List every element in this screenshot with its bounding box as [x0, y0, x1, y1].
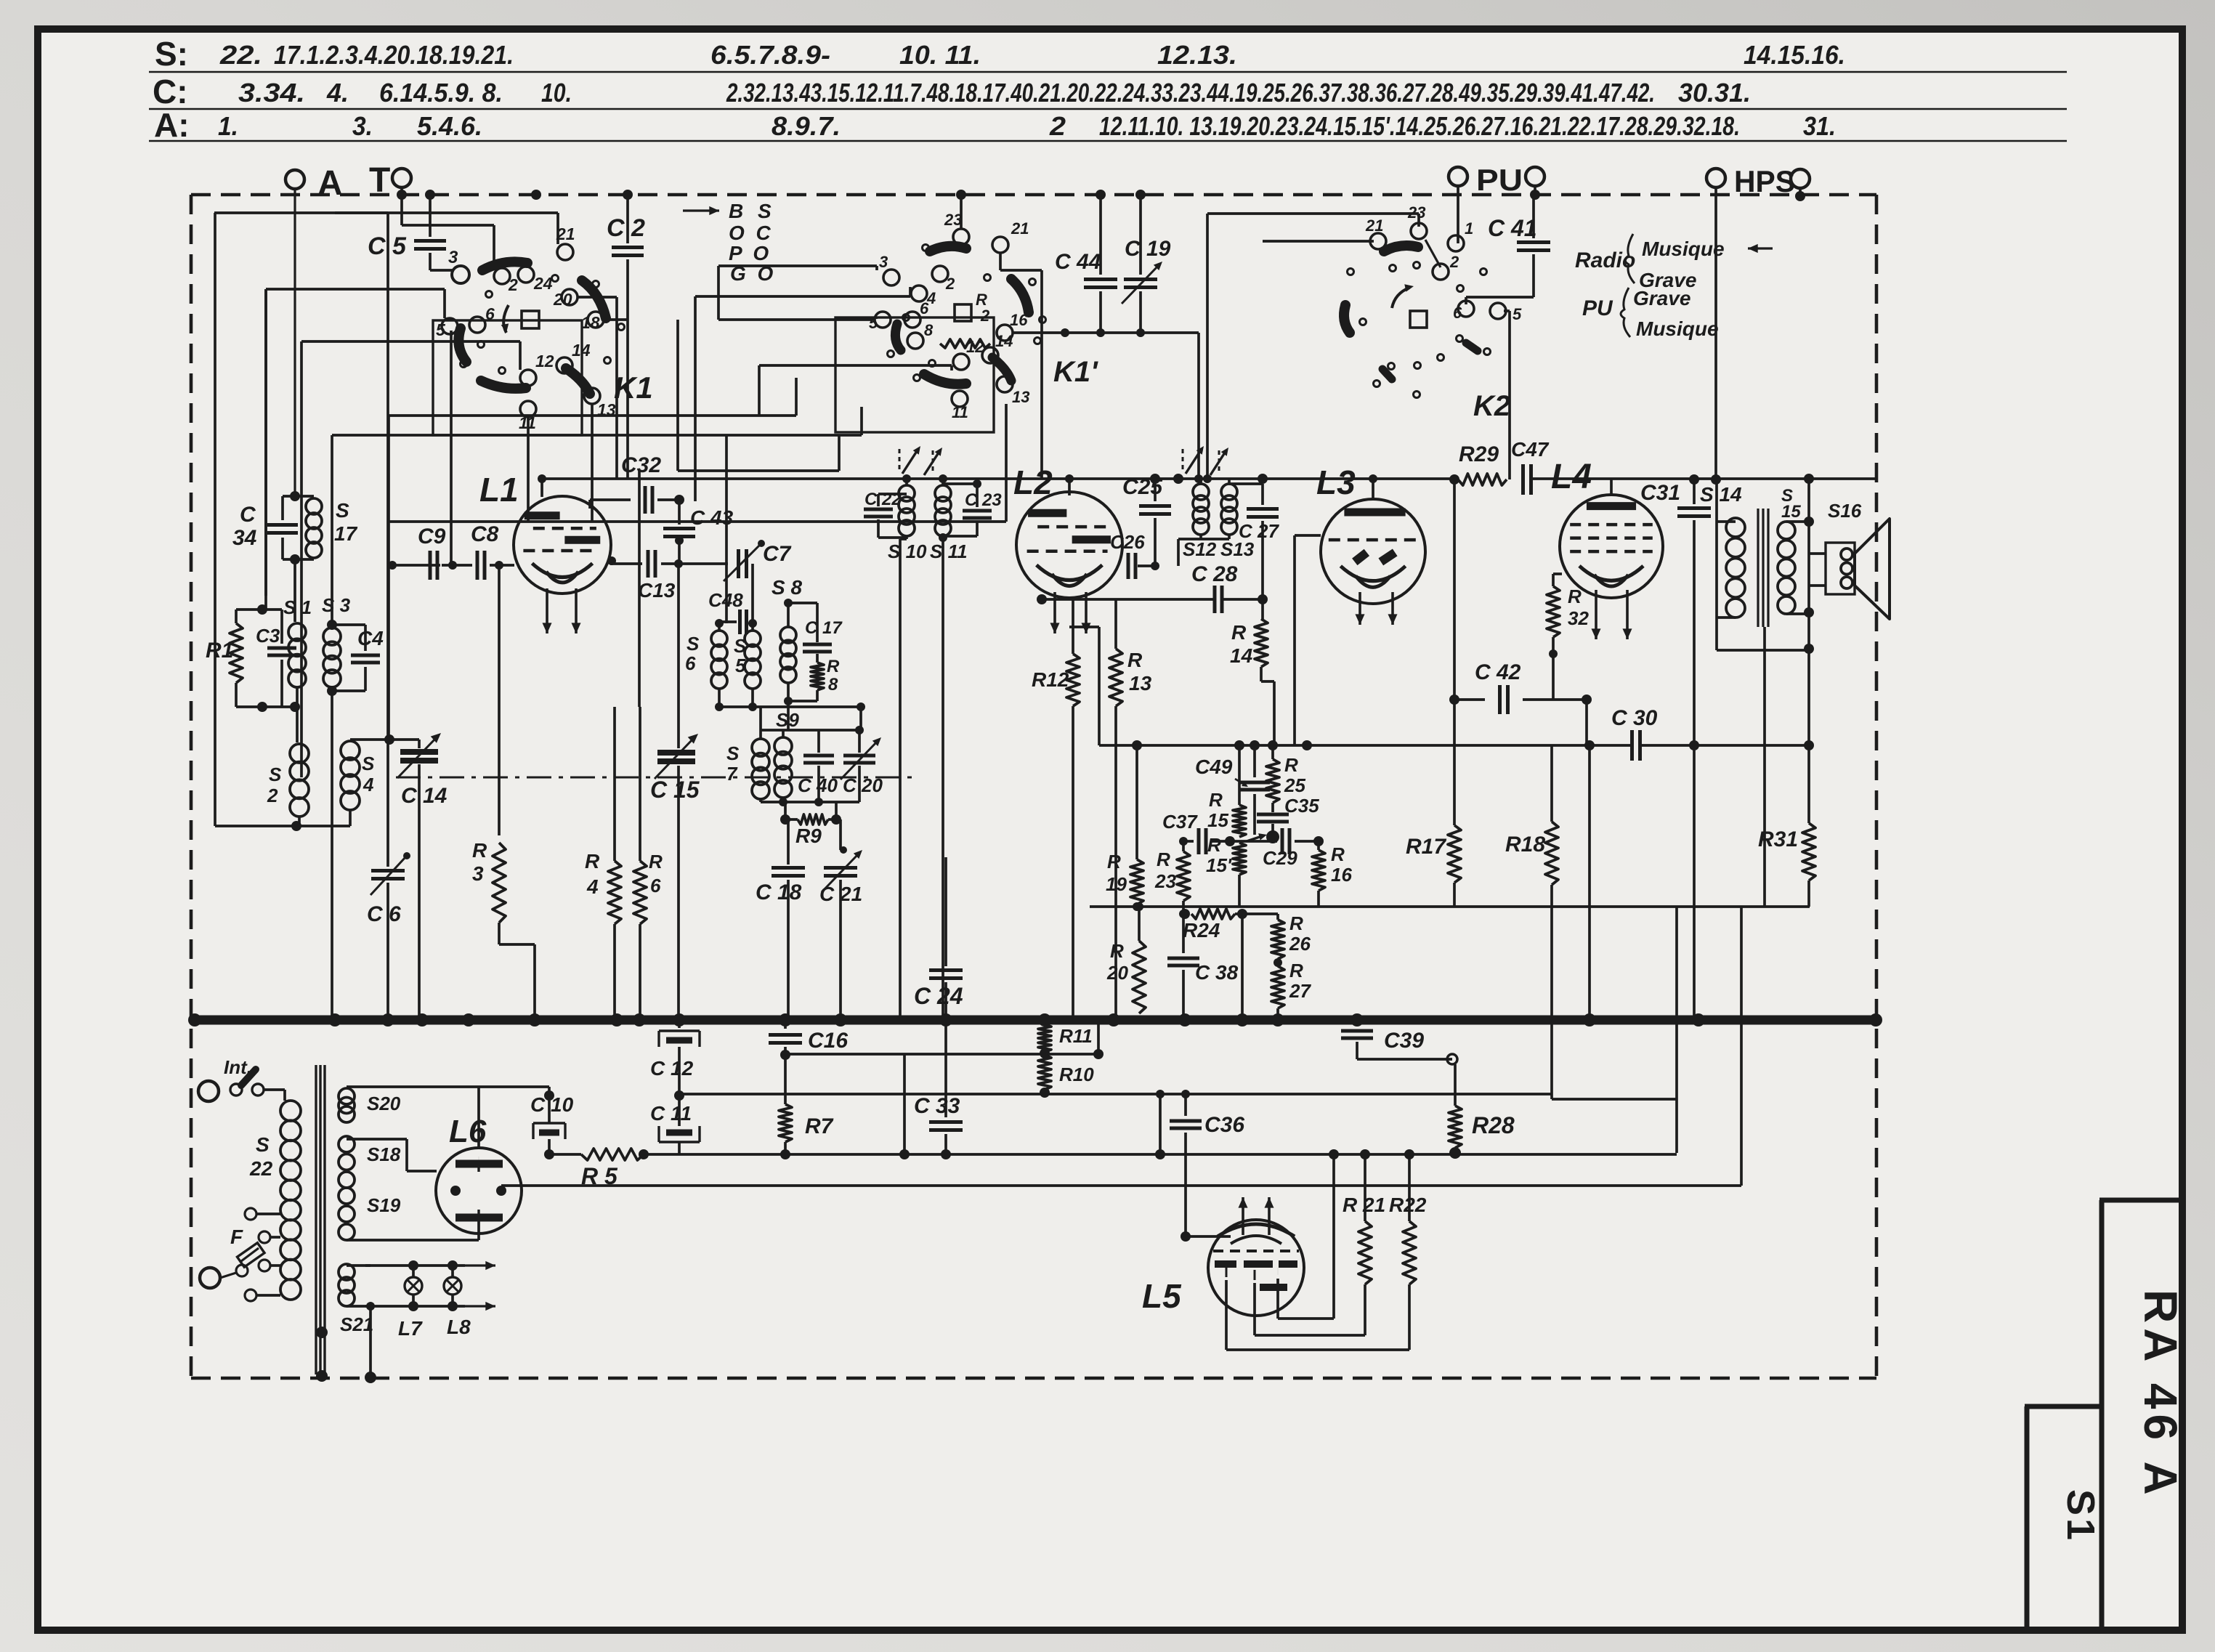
- svg-text:S20: S20: [367, 1093, 401, 1114]
- resistor R23: [1182, 841, 1185, 851]
- svg-text:R: R: [1157, 849, 1170, 870]
- junction y1026 x=2188: [1584, 740, 1595, 750]
- svg-text:14: 14: [995, 332, 1013, 350]
- resistor R14: [1261, 599, 1264, 619]
- svg-text:R7: R7: [805, 1114, 834, 1138]
- var capacitor C7: [737, 549, 740, 578]
- terminal T: [392, 169, 411, 187]
- svg-text:R10: R10: [1059, 1064, 1094, 1085]
- terminal HPS left: [1706, 169, 1725, 187]
- svg-text:5.4.6.: 5.4.6.: [417, 111, 482, 141]
- svg-text:C 21: C 21: [819, 883, 862, 905]
- wire R24 to R26: [1242, 912, 1278, 915]
- K1prime pin23 wire: [960, 195, 963, 229]
- band arrow: [683, 209, 719, 211]
- K2 pin21 wire: [1263, 240, 1374, 243]
- coil S17: [295, 495, 314, 498]
- svg-text:S 11: S 11: [930, 540, 968, 562]
- svg-text:C 30: C 30: [1611, 706, 1658, 730]
- svg-text:Musique: Musique: [1636, 317, 1719, 340]
- wire x934 long: [677, 564, 680, 748]
- capacitor C41: [1532, 195, 1535, 238]
- resistor R17: [1453, 479, 1456, 825]
- svg-text:S 8: S 8: [772, 576, 802, 599]
- junction on top dashed x=592: [425, 190, 435, 200]
- svg-text:2: 2: [945, 275, 955, 293]
- tube L1: [514, 496, 611, 594]
- resistor R16: [1317, 841, 1320, 850]
- resistor R32: [1552, 574, 1555, 586]
- bus junction x=1533: [1107, 1013, 1120, 1027]
- svg-text:30.31.: 30.31.: [1678, 78, 1751, 108]
- svg-text:15: 15: [1207, 809, 1228, 831]
- wire y1451: [785, 1053, 1098, 1056]
- coil S2: [296, 707, 299, 742]
- coil S3: [331, 435, 333, 625]
- junction y1589 x=1081: [780, 1149, 790, 1159]
- svg-text:L1: L1: [479, 471, 519, 509]
- svg-text:2: 2: [980, 307, 990, 325]
- L3 cathode arrows: [1358, 592, 1361, 625]
- bus junction x=1081: [779, 1013, 792, 1027]
- coil S13: [1228, 479, 1231, 484]
- svg-text:S: S: [362, 753, 375, 774]
- svg-text:S: S: [726, 742, 740, 764]
- svg-text:6: 6: [1453, 304, 1462, 322]
- tube L2: [1016, 492, 1122, 598]
- svg-text:C 15: C 15: [650, 777, 700, 803]
- svg-text:R1: R1: [206, 639, 233, 663]
- mesh wire c: [718, 318, 875, 321]
- K1prime wedge e: [992, 357, 1011, 381]
- S14 primary coil: [1726, 518, 1745, 537]
- svg-text:13: 13: [1129, 672, 1152, 695]
- svg-text:C 27: C 27: [1239, 520, 1279, 542]
- title box RA46A: [2099, 1198, 2179, 1203]
- svg-text:21: 21: [1011, 219, 1029, 238]
- mesh wire h: [678, 469, 839, 472]
- K1 pin20 wire: [578, 296, 617, 299]
- svg-text:20: 20: [553, 290, 572, 309]
- L3 anode lead: [1372, 479, 1374, 500]
- bus junction x=1868: [1351, 1013, 1364, 1027]
- svg-text:C 6: C 6: [367, 902, 401, 926]
- svg-text:23: 23: [1154, 870, 1176, 892]
- dashed border bottom: [191, 1377, 1876, 1380]
- S15 secondary coil: [1778, 522, 1795, 539]
- svg-text:3: 3: [879, 253, 888, 271]
- tube L4: [1560, 495, 1663, 598]
- coil S8: [787, 603, 790, 627]
- svg-text:R17: R17: [1406, 835, 1446, 859]
- junction y1026 x=1727: [1250, 740, 1260, 750]
- junction y1026 x=1706: [1234, 740, 1244, 750]
- svg-text:C4: C4: [357, 627, 384, 649]
- bus junction x=268: [188, 1013, 201, 1027]
- svg-text:S:: S:: [155, 35, 188, 73]
- L2 cathode arrows: [1053, 592, 1056, 633]
- svg-text:R29: R29: [1459, 442, 1499, 466]
- K1prime pin16 wire: [1013, 331, 1199, 334]
- capacitor C5: [429, 195, 432, 237]
- wire y1506: [679, 1093, 1552, 1096]
- svg-text:17.1.2.3.4.20.18.19.21.: 17.1.2.3.4.20.18.19.21.: [274, 40, 514, 70]
- capacitor C23: [943, 482, 977, 485]
- S21 down: [369, 1306, 372, 1377]
- L5 pin wire a: [1276, 1279, 1279, 1319]
- svg-text:S 14: S 14: [1700, 483, 1742, 506]
- wire L3 plate to R29: [1449, 474, 1459, 485]
- resistor R27: [1271, 966, 1284, 1008]
- L1 grid bar lead: [588, 500, 591, 509]
- svg-text:R: R: [1568, 586, 1582, 607]
- bus junction x=1302: [939, 1013, 952, 1027]
- L1 anode lead: [540, 480, 543, 497]
- coil S12: [1199, 479, 1202, 484]
- svg-text:L2: L2: [1013, 463, 1053, 501]
- terminal PU left: [1449, 167, 1467, 186]
- L5 pin wire b: [1253, 1283, 1256, 1335]
- wire x366 to bar: [264, 289, 267, 610]
- resistor R12: [1072, 599, 1074, 654]
- capacitor C49: [1253, 745, 1256, 777]
- junction on top dashed x=1515: [1096, 190, 1106, 200]
- svg-text:C31: C31: [1640, 481, 1680, 505]
- svg-text:C32: C32: [621, 453, 661, 477]
- resistor R4: [613, 707, 616, 861]
- terminal PU right: [1526, 167, 1544, 186]
- wire y293: [214, 211, 558, 214]
- svg-text:S 10: S 10: [888, 540, 927, 562]
- secondary S20: [339, 1088, 355, 1104]
- wire S7 S9 bottom: [761, 801, 859, 803]
- wire S5 S6 bottom: [719, 705, 861, 708]
- header rule 1: [149, 71, 2067, 73]
- capacitor C48: [719, 620, 737, 623]
- switch wafer K1 contacts: [494, 268, 510, 284]
- svg-text:R18: R18: [1505, 833, 1545, 857]
- wire x2308: [1675, 907, 1678, 1153]
- capacitor C22: [878, 493, 907, 495]
- bus junction x=1759: [1271, 1013, 1284, 1027]
- svg-text:K2: K2: [1473, 390, 1510, 422]
- K1 rotor wedge a: [482, 262, 527, 270]
- svg-text:C 33: C 33: [914, 1094, 960, 1118]
- resistor R25: [1271, 745, 1274, 759]
- svg-text:C9: C9: [418, 525, 446, 548]
- svg-text:R9: R9: [795, 825, 822, 847]
- svg-text:Grave: Grave: [1633, 287, 1690, 309]
- S14 primary box: [1715, 479, 1718, 650]
- svg-text:RA 46 A: RA 46 A: [2134, 1289, 2187, 1500]
- svg-text:C 14: C 14: [401, 784, 448, 808]
- svg-text:C 18: C 18: [756, 880, 802, 904]
- svg-text:2: 2: [508, 275, 518, 294]
- svg-text:31.: 31.: [1803, 111, 1836, 141]
- svg-text:L4: L4: [1551, 458, 1592, 496]
- trimmer cap C6: [371, 869, 405, 872]
- svg-text:C 24: C 24: [914, 983, 963, 1009]
- L2 bottom wire: [1042, 598, 1214, 601]
- mesh wire f: [389, 414, 796, 417]
- K1 pin18 wire: [604, 318, 628, 321]
- capacitor C33: [944, 1020, 947, 1117]
- svg-text:R: R: [1110, 940, 1124, 962]
- svg-text:4: 4: [363, 774, 374, 795]
- svg-text:C 22: C 22: [864, 490, 902, 509]
- annotation brace 2: [1621, 288, 1630, 337]
- bus junction x=736: [528, 1013, 541, 1027]
- wire y1248: [1090, 905, 1810, 908]
- capacitor C10: [548, 1087, 551, 1123]
- svg-text:6.5.7.8.9-: 6.5.7.8.9-: [710, 40, 830, 70]
- junction y1026 x=1565: [1132, 740, 1142, 750]
- lamp wires bottom: [365, 1305, 465, 1308]
- wire y1026: [1099, 744, 1632, 747]
- resistor R11: [1043, 1020, 1046, 1024]
- S22 taps: [245, 1208, 256, 1220]
- iron-core adjust marks 1: [902, 449, 918, 474]
- svg-text:C 38: C 38: [1195, 961, 1239, 984]
- svg-text:1.: 1.: [218, 111, 238, 141]
- svg-text:3.: 3.: [352, 111, 373, 141]
- capacitor C34: [290, 491, 300, 501]
- bus junction x=461: [328, 1013, 341, 1027]
- svg-text:S 1: S 1: [283, 596, 312, 618]
- svg-text:S19: S19: [367, 1194, 401, 1216]
- tube L3: [1321, 499, 1425, 604]
- capacitor C30: [1630, 730, 1634, 761]
- capacitor C35: [1257, 813, 1289, 817]
- junction y1589 x=1302: [941, 1149, 951, 1159]
- L4 cathode arrows: [1595, 590, 1598, 639]
- wire x1185 down: [859, 707, 862, 730]
- svg-text:C 20: C 20: [843, 774, 883, 796]
- lamp L7: [412, 1266, 415, 1277]
- svg-text:R 21: R 21: [1343, 1194, 1385, 1216]
- coil S1: [288, 623, 306, 641]
- resistor R6: [639, 707, 641, 861]
- svg-text:S18: S18: [367, 1143, 401, 1165]
- svg-text:C 42: C 42: [1475, 660, 1521, 684]
- svg-text:R28: R28: [1472, 1112, 1515, 1138]
- svg-text:C: C: [240, 503, 256, 527]
- svg-text:C7: C7: [763, 542, 792, 566]
- bus junction x=880: [633, 1013, 646, 1027]
- svg-text:8.9.7.: 8.9.7.: [772, 111, 841, 141]
- wire vertical x366: [264, 289, 267, 596]
- wire L6 right: [501, 1186, 502, 1188]
- svg-text:C 17: C 17: [805, 618, 843, 638]
- svg-text:A: A: [317, 164, 343, 203]
- junction y1026 x=1752: [1268, 740, 1278, 750]
- svg-text:R: R: [1207, 834, 1221, 856]
- svg-text:R: R: [1127, 649, 1143, 671]
- bus junction x=581: [416, 1013, 429, 1027]
- K2 pin6 wire: [1465, 297, 1467, 304]
- capacitor C4: [332, 623, 365, 626]
- svg-text:K1: K1: [614, 371, 653, 405]
- resistor R8: [811, 663, 824, 690]
- iron-core adjust marks 2: [1186, 449, 1202, 474]
- resistor R28: [1454, 1064, 1457, 1106]
- svg-text:5: 5: [735, 655, 746, 676]
- svg-text:S: S: [269, 764, 282, 785]
- svg-text:A:: A:: [154, 106, 190, 144]
- svg-text:C 23: C 23: [965, 490, 1002, 510]
- svg-text:R: R: [649, 851, 663, 872]
- dashed border top: [191, 193, 1876, 197]
- R15 wiper arrow: [1247, 835, 1264, 841]
- wire S12 left: [1178, 538, 1201, 540]
- capacitor C26: [1127, 553, 1130, 579]
- svg-text:7: 7: [726, 763, 738, 785]
- svg-text:32: 32: [1568, 607, 1589, 629]
- bus junction x=935: [673, 1013, 686, 1027]
- K2 pin2 wire: [1425, 240, 1441, 267]
- bus junction x=2582: [1869, 1013, 1882, 1027]
- tube L5: [1208, 1220, 1304, 1316]
- svg-text:C49: C49: [1195, 756, 1233, 778]
- K2 rotor arrow: [1392, 288, 1409, 308]
- resistor R29: [1458, 474, 1507, 485]
- resistor R19: [1135, 745, 1138, 859]
- wire y398: [266, 288, 445, 291]
- svg-text:8: 8: [828, 675, 838, 695]
- svg-text:25: 25: [1284, 774, 1305, 796]
- capacitor C2: [626, 195, 629, 243]
- svg-text:R12: R12: [1032, 668, 1069, 691]
- resistor R15prime: [1233, 843, 1246, 875]
- bus junction x=534: [381, 1013, 394, 1027]
- gang dash-dot line: [396, 777, 919, 779]
- L5 grid dash: [1213, 1250, 1299, 1252]
- svg-text:21: 21: [556, 224, 575, 243]
- resistor R1: [235, 610, 238, 623]
- capacitor C16: [784, 1020, 787, 1029]
- svg-text:HPS: HPS: [1734, 164, 1795, 198]
- lamp wires top: [365, 1264, 465, 1267]
- junction on top dashed x=1323: [956, 190, 966, 200]
- K1prime pin21 wire: [999, 253, 1002, 270]
- svg-text:R22: R22: [1389, 1194, 1427, 1216]
- mesh wire b: [695, 295, 910, 298]
- svg-text:B S: B S: [729, 200, 776, 222]
- speaker wires: [1809, 552, 1826, 555]
- resistor R15 potentiometer: [1238, 745, 1241, 805]
- K1prime wafer outline: [835, 317, 994, 432]
- transformer S22 primary: [280, 1101, 301, 1121]
- svg-text:R: R: [1107, 851, 1121, 872]
- svg-text:C48: C48: [708, 589, 743, 611]
- svg-text:F: F: [230, 1226, 243, 1248]
- svg-text:17: 17: [334, 522, 358, 545]
- capacitor C27: [1229, 482, 1263, 485]
- svg-text:S 3: S 3: [322, 594, 351, 616]
- L6 bottom lead: [477, 1221, 480, 1240]
- svg-text:18: 18: [581, 313, 600, 332]
- wire x2188: [1588, 745, 1591, 1020]
- bus junction x=1157: [834, 1013, 847, 1027]
- K1prime wedge b: [1011, 279, 1029, 312]
- svg-text:C47: C47: [1511, 438, 1550, 461]
- wire x687 down: [498, 565, 501, 835]
- wire x880 top: [638, 471, 641, 707]
- svg-text:14: 14: [1230, 644, 1253, 667]
- svg-text:C25: C25: [1122, 475, 1163, 499]
- K1prime wedge a: [930, 246, 966, 251]
- capacitor C8: [442, 564, 472, 567]
- header rule 2: [149, 108, 2067, 110]
- svg-text:K1': K1': [1053, 356, 1098, 388]
- capacitor C25: [1154, 479, 1157, 501]
- svg-text:R: R: [1331, 843, 1345, 865]
- svg-text:6: 6: [685, 652, 696, 674]
- svg-text:C13: C13: [638, 579, 676, 602]
- resistor R26: [1276, 914, 1279, 920]
- title box S1: [2025, 1404, 2102, 1409]
- bus junction x=849: [610, 1013, 623, 1027]
- svg-text:22.: 22.: [219, 40, 262, 70]
- svg-text:14: 14: [572, 341, 591, 360]
- terminal A: [286, 170, 304, 189]
- svg-text:21: 21: [1365, 216, 1383, 235]
- K1 rotor arrow: [503, 305, 509, 333]
- speaker S16 cone: [1855, 519, 1890, 619]
- K1 rotor wedge b: [582, 280, 606, 318]
- svg-text:6: 6: [485, 304, 495, 323]
- junction y1589 x=1879: [1360, 1149, 1370, 1159]
- capacitor C44: [1099, 195, 1102, 275]
- secondary S19: [339, 1188, 355, 1204]
- speaker S16 voice coil box: [1826, 543, 1855, 594]
- junction on top dashed x=864: [623, 190, 633, 200]
- svg-text:4: 4: [586, 875, 599, 898]
- svg-text:S1: S1: [2059, 1489, 2102, 1543]
- coil S10: [905, 479, 908, 485]
- capacitor C12: [678, 1020, 681, 1028]
- svg-text:3: 3: [472, 862, 484, 885]
- resistor R3: [493, 843, 506, 923]
- junction on top dashed x=738: [531, 190, 541, 200]
- junction y1589 x=1597: [1155, 1149, 1165, 1159]
- capacitor C11: [659, 1126, 700, 1142]
- junction on top dashed x=1570: [1135, 190, 1146, 200]
- svg-text:C35: C35: [1284, 795, 1319, 817]
- svg-text:24: 24: [533, 274, 553, 293]
- wire C7 down: [751, 564, 754, 622]
- switch Int: [198, 1081, 219, 1101]
- K1 rotor wedge c: [458, 328, 466, 362]
- coil S9: [782, 730, 785, 737]
- junction y1589 x=1836: [1329, 1149, 1339, 1159]
- capacitor C38: [1182, 914, 1185, 953]
- svg-text:R: R: [1209, 789, 1223, 811]
- svg-text:PU: PU: [1476, 163, 1523, 197]
- mesh wire i: [389, 520, 1006, 523]
- K1prime wedge c: [895, 324, 901, 350]
- capacitor C37: [1183, 840, 1194, 843]
- svg-text:19: 19: [1106, 873, 1127, 895]
- svg-text:R: R: [472, 839, 487, 862]
- coil S7: [759, 707, 762, 739]
- wire T to K1 pin2: [400, 195, 403, 225]
- svg-text:C 43: C 43: [690, 506, 734, 529]
- svg-text:5: 5: [1513, 305, 1522, 323]
- svg-text:S: S: [687, 633, 700, 655]
- svg-text:R 5: R 5: [581, 1163, 618, 1189]
- resistor R7: [784, 1055, 787, 1104]
